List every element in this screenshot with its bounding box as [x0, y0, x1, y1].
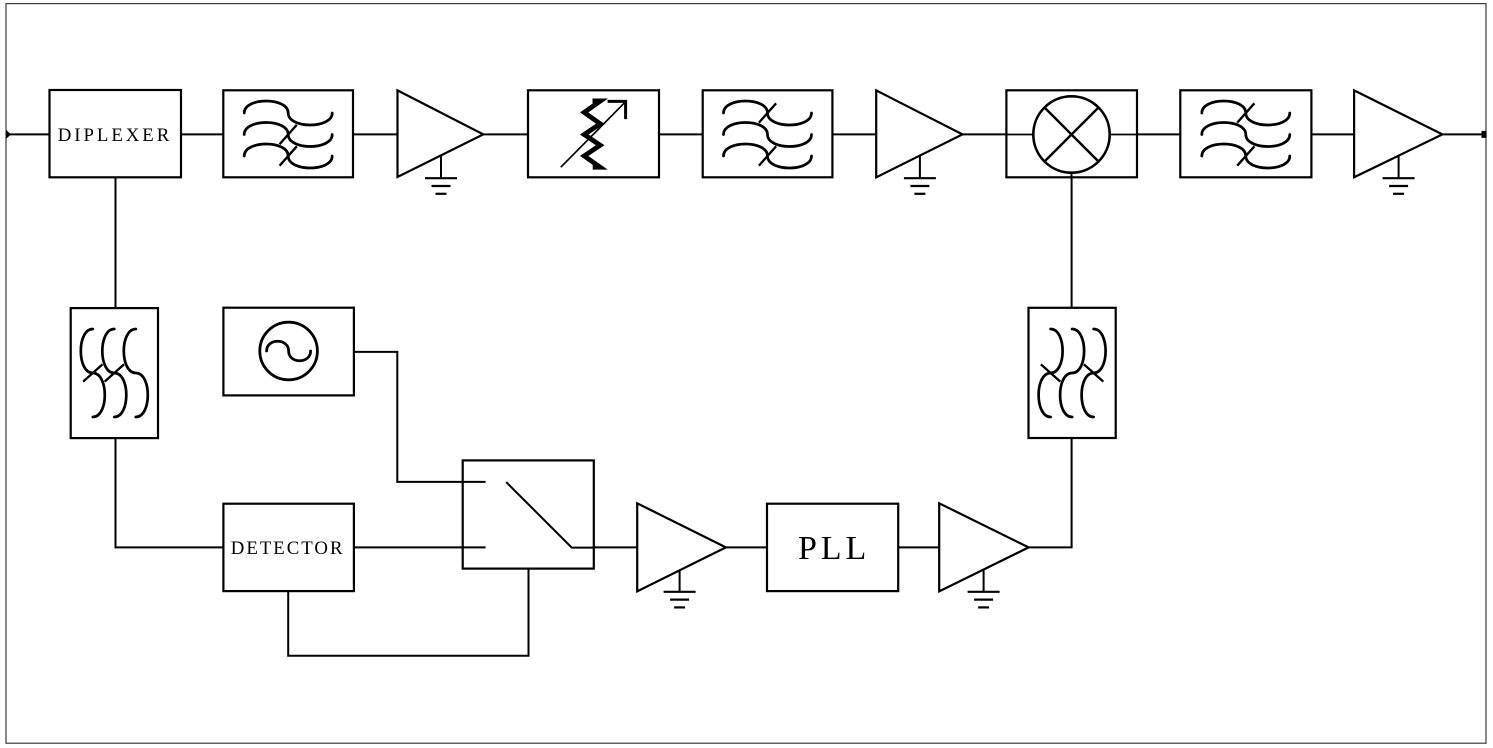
- svg-text:DETECTOR: DETECTOR: [231, 538, 345, 559]
- svg-text:DIPLEXER: DIPLEXER: [58, 125, 172, 146]
- svg-text:PLL: PLL: [798, 530, 870, 567]
